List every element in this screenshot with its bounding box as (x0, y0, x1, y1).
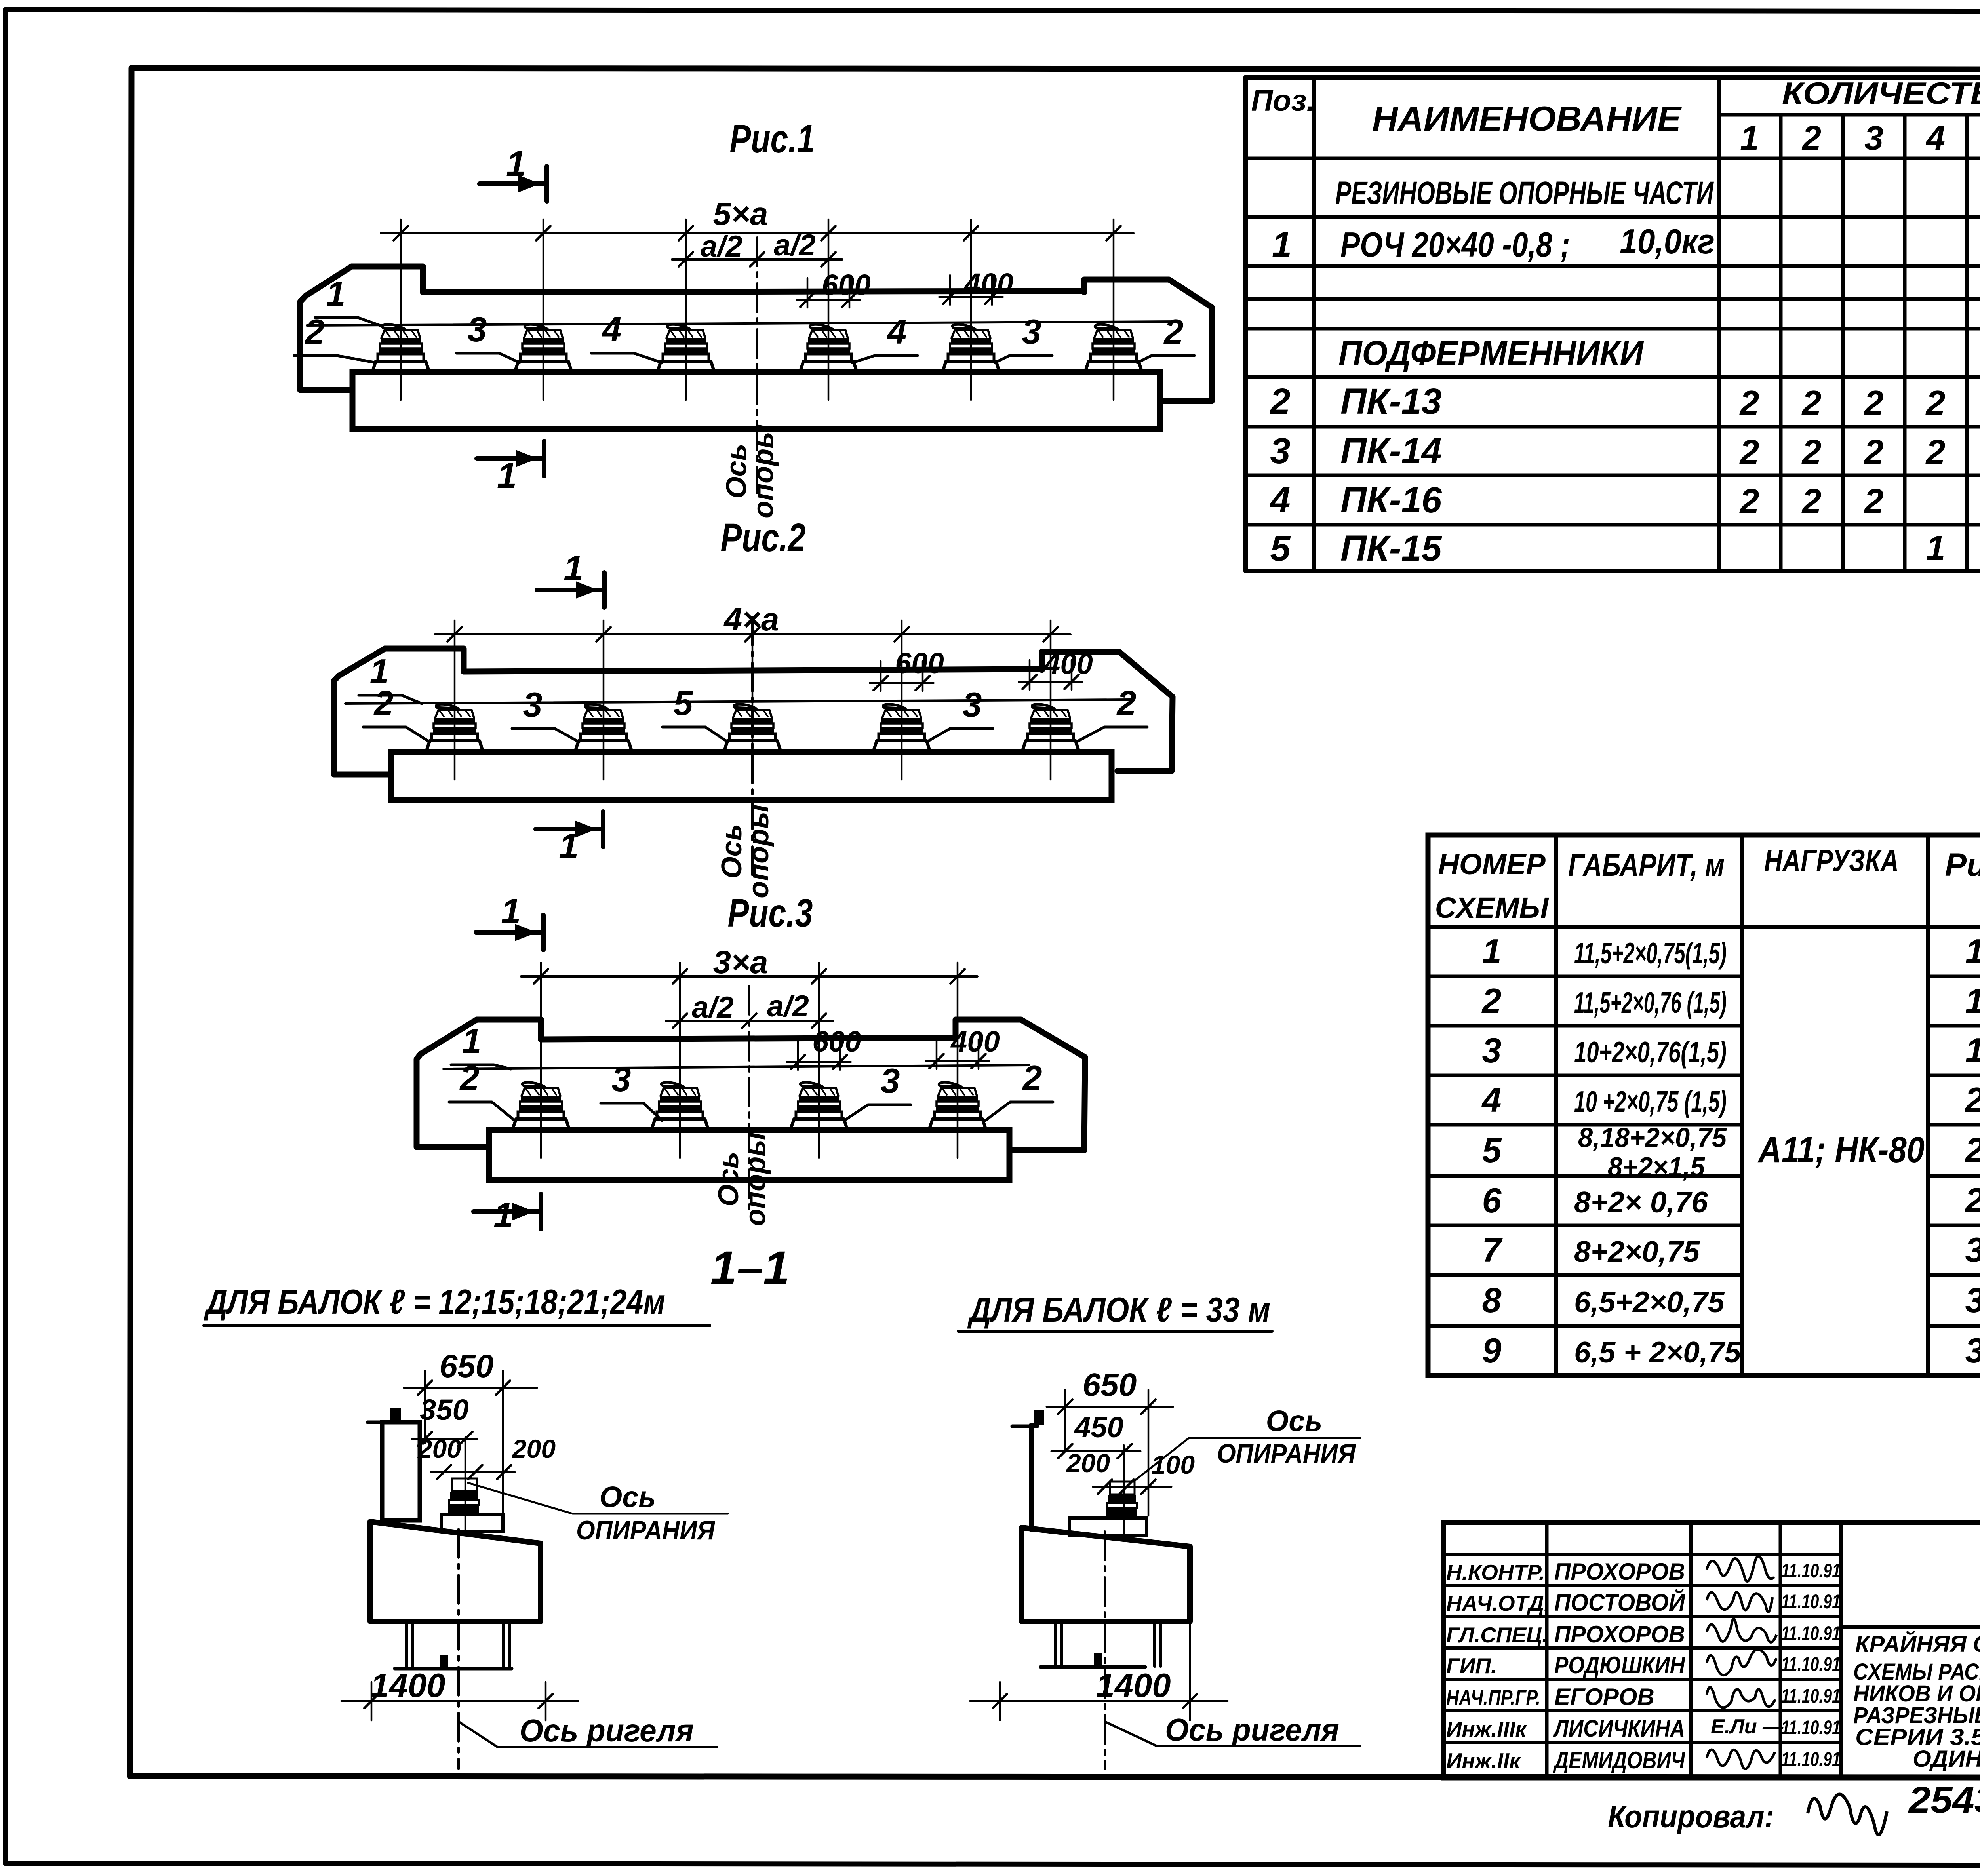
svg-text:ПК-13: ПК-13 (1340, 381, 1442, 422)
svg-text:600: 600 (812, 1025, 861, 1058)
svg-text:РОДЮШКИН: РОДЮШКИН (1554, 1652, 1685, 1678)
svg-text:ДЕМИДОВИЧ: ДЕМИДОВИЧ (1553, 1747, 1685, 1773)
svg-text:Е.Ли —: Е.Ли — (1711, 1715, 1784, 1738)
svg-text:Поз.: Поз. (1251, 84, 1315, 118)
svg-text:2: 2 (459, 1058, 480, 1098)
svg-text:2: 2 (1116, 683, 1137, 723)
svg-text:ПРОХОРОВ: ПРОХОРОВ (1554, 1558, 1685, 1585)
svg-text:6: 6 (1482, 1181, 1502, 1220)
svg-text:Ось: Ось (600, 1480, 656, 1513)
svg-text:ДЛЯ БАЛОК ℓ = 33 м: ДЛЯ БАЛОК ℓ = 33 м (967, 1290, 1270, 1329)
svg-text:Инж.IIк: Инж.IIк (1446, 1749, 1521, 1773)
svg-text:1: 1 (326, 274, 346, 313)
svg-text:Рис.: Рис. (1945, 847, 1980, 883)
svg-text:ДЛЯ БАЛОК ℓ = 12;15;18;21;24м: ДЛЯ БАЛОК ℓ = 12;15;18;21;24м (204, 1282, 665, 1321)
svg-text:10 +2×0,75 (1,5): 10 +2×0,75 (1,5) (1574, 1085, 1727, 1118)
svg-text:3: 3 (1965, 1280, 1980, 1320)
svg-text:Инж.IIIк: Инж.IIIк (1446, 1717, 1527, 1741)
svg-text:опоры: опоры (748, 424, 779, 518)
svg-text:КОЛИЧЕСТВО НА СХЕМУ: КОЛИЧЕСТВО НА СХЕМУ (1782, 76, 1980, 110)
svg-text:2: 2 (1022, 1058, 1042, 1098)
svg-text:2: 2 (1739, 383, 1759, 422)
svg-text:НАИМЕНОВАНИЕ: НАИМЕНОВАНИЕ (1372, 99, 1682, 138)
svg-text:a/2: a/2 (774, 228, 816, 262)
svg-text:600: 600 (822, 268, 870, 301)
svg-text:400: 400 (1043, 647, 1093, 680)
svg-text:ПК-15: ПК-15 (1340, 528, 1443, 569)
svg-text:Рис.3: Рис.3 (728, 891, 813, 935)
svg-text:11.10.91: 11.10.91 (1781, 1622, 1841, 1644)
svg-text:2: 2 (1864, 481, 1884, 521)
svg-text:350: 350 (420, 1393, 468, 1426)
svg-text:10,0кг: 10,0кг (1620, 222, 1715, 261)
svg-text:ГИП.: ГИП. (1446, 1653, 1497, 1678)
svg-text:2: 2 (1163, 312, 1184, 351)
svg-text:2: 2 (1965, 1181, 1980, 1220)
svg-text:2: 2 (1481, 981, 1502, 1020)
svg-text:Ось: Ось (1266, 1404, 1323, 1437)
svg-text:7: 7 (1482, 1230, 1503, 1269)
svg-text:1: 1 (1272, 225, 1292, 264)
svg-text:Копировал:: Копировал: (1608, 1799, 1774, 1834)
svg-text:НАГРУЗКА: НАГРУЗКА (1764, 843, 1899, 878)
svg-text:1: 1 (1482, 932, 1502, 971)
svg-text:ПОДФЕРМЕННИКИ: ПОДФЕРМЕННИКИ (1338, 333, 1644, 373)
svg-text:2: 2 (1801, 383, 1822, 422)
svg-text:3: 3 (1482, 1031, 1502, 1070)
svg-text:ГАБАРИТ, м: ГАБАРИТ, м (1568, 847, 1725, 883)
svg-text:2: 2 (1801, 119, 1821, 157)
svg-text:А11; НК-80: А11; НК-80 (1757, 1130, 1925, 1170)
svg-text:400: 400 (963, 267, 1013, 300)
svg-text:1: 1 (462, 1021, 482, 1060)
svg-text:1: 1 (497, 456, 517, 496)
svg-text:11.10.91: 11.10.91 (1781, 1748, 1841, 1770)
svg-text:НАЧ.ОТД.: НАЧ.ОТД. (1446, 1591, 1550, 1615)
svg-text:1400: 1400 (370, 1667, 445, 1705)
svg-text:1–1: 1–1 (710, 1242, 790, 1294)
svg-text:3: 3 (963, 685, 982, 724)
svg-text:5: 5 (1482, 1130, 1502, 1170)
svg-text:4: 4 (602, 310, 622, 349)
svg-text:1: 1 (564, 549, 583, 588)
svg-text:11.10.91: 11.10.91 (1781, 1716, 1841, 1739)
svg-text:5: 5 (674, 683, 693, 723)
svg-text:a/2: a/2 (692, 991, 734, 1024)
svg-text:ОПИРАНИЯ: ОПИРАНИЯ (1217, 1438, 1356, 1469)
svg-text:КРАЙНЯЯ ОПОРА.: КРАЙНЯЯ ОПОРА. (1855, 1631, 1980, 1657)
svg-text:3: 3 (1965, 1230, 1980, 1269)
svg-text:8+2×1,5: 8+2×1,5 (1608, 1151, 1705, 1182)
svg-text:4: 4 (887, 312, 907, 351)
svg-text:1400: 1400 (1096, 1667, 1171, 1705)
svg-text:3: 3 (523, 685, 543, 724)
svg-text:2: 2 (1965, 1130, 1980, 1170)
svg-text:25430-03: 25430-03 (1908, 1779, 1980, 1821)
svg-text:a/2: a/2 (701, 230, 742, 263)
svg-text:200: 200 (1066, 1448, 1110, 1478)
svg-text:СХЕМЫ: СХЕМЫ (1435, 891, 1550, 924)
svg-text:Рис.2: Рис.2 (721, 516, 806, 560)
svg-text:2: 2 (1739, 432, 1759, 472)
svg-text:11.10.91: 11.10.91 (1781, 1685, 1841, 1707)
svg-text:8: 8 (1482, 1280, 1502, 1320)
svg-text:600: 600 (895, 647, 944, 679)
svg-text:1: 1 (1965, 932, 1980, 971)
svg-text:опоры: опоры (743, 804, 775, 898)
svg-text:2: 2 (1801, 481, 1822, 521)
svg-text:1: 1 (501, 892, 521, 931)
svg-text:2: 2 (1925, 383, 1946, 422)
svg-text:ЕГОРОВ: ЕГОРОВ (1554, 1684, 1654, 1710)
svg-text:1: 1 (559, 827, 579, 866)
svg-text:2: 2 (1269, 381, 1290, 422)
svg-text:650: 650 (440, 1348, 494, 1384)
svg-text:9: 9 (1482, 1331, 1502, 1370)
svg-text:3: 3 (881, 1061, 900, 1100)
svg-text:3: 3 (612, 1060, 631, 1099)
svg-text:РОЧ 20×40 -0,8 ;: РОЧ 20×40 -0,8 ; (1340, 225, 1570, 264)
svg-text:Рис.1: Рис.1 (730, 117, 815, 161)
svg-text:11.10.91: 11.10.91 (1781, 1653, 1841, 1675)
svg-text:ПК-14: ПК-14 (1340, 431, 1442, 471)
svg-text:4: 4 (1925, 119, 1945, 157)
svg-text:ГЛ.СПЕЦ.: ГЛ.СПЕЦ. (1446, 1623, 1548, 1647)
svg-text:3: 3 (1864, 119, 1883, 157)
svg-text:Ось ригеля: Ось ригеля (1165, 1712, 1339, 1747)
svg-text:1: 1 (1965, 981, 1980, 1020)
svg-text:5×a: 5×a (713, 196, 768, 232)
svg-text:2: 2 (1864, 432, 1884, 472)
svg-text:450: 450 (1074, 1411, 1123, 1444)
svg-text:1: 1 (1926, 528, 1946, 567)
svg-text:1: 1 (1740, 119, 1759, 157)
svg-text:2: 2 (373, 683, 394, 723)
svg-text:ОПИРАНИЯ: ОПИРАНИЯ (576, 1515, 715, 1545)
svg-text:6,5 + 2×0,75: 6,5 + 2×0,75 (1574, 1336, 1742, 1369)
svg-text:3: 3 (1022, 312, 1041, 351)
svg-text:опоры: опоры (740, 1132, 771, 1226)
svg-text:Ось ригеля: Ось ригеля (520, 1713, 694, 1748)
svg-text:8,18+2×0,75: 8,18+2×0,75 (1578, 1122, 1727, 1153)
svg-text:650: 650 (1083, 1367, 1137, 1403)
svg-text:400: 400 (950, 1025, 1000, 1058)
svg-text:1: 1 (1965, 1031, 1980, 1070)
svg-text:100: 100 (1151, 1450, 1195, 1479)
svg-text:11,5+2×0,76 (1,5): 11,5+2×0,76 (1,5) (1574, 986, 1727, 1019)
svg-text:3: 3 (1965, 1331, 1980, 1370)
svg-text:11.10.91: 11.10.91 (1781, 1560, 1841, 1582)
svg-text:10+2×0,76(1,5): 10+2×0,76(1,5) (1574, 1035, 1727, 1069)
svg-text:1: 1 (506, 144, 526, 184)
svg-text:11,5+2×0,75(1,5): 11,5+2×0,75(1,5) (1574, 936, 1727, 970)
svg-text:ОДИНАРНЫЕ ГАБАРИТЫ: ОДИНАРНЫЕ ГАБАРИТЫ (1913, 1746, 1980, 1772)
svg-text:200: 200 (511, 1434, 556, 1463)
svg-text:a/2: a/2 (767, 989, 809, 1023)
svg-text:4: 4 (1269, 480, 1290, 520)
svg-text:РЕЗИНОВЫЕ ОПОРНЫЕ ЧАСТИ: РЕЗИНОВЫЕ ОПОРНЫЕ ЧАСТИ (1335, 175, 1714, 211)
svg-text:Н.КОНТР.: Н.КОНТР. (1446, 1560, 1545, 1585)
svg-text:200: 200 (417, 1434, 461, 1463)
svg-text:2: 2 (1739, 481, 1759, 521)
svg-text:5: 5 (1270, 528, 1291, 569)
svg-text:3×a: 3×a (713, 944, 768, 980)
svg-text:2: 2 (1801, 432, 1822, 472)
svg-text:4: 4 (1481, 1080, 1502, 1119)
svg-text:8+2×0,75: 8+2×0,75 (1574, 1235, 1700, 1268)
svg-text:НОМЕР: НОМЕР (1438, 848, 1546, 881)
svg-text:11.10.91: 11.10.91 (1781, 1591, 1841, 1613)
svg-text:2: 2 (305, 312, 325, 351)
svg-text:ПК-16: ПК-16 (1340, 480, 1442, 520)
svg-text:8+2× 0,76: 8+2× 0,76 (1574, 1185, 1708, 1219)
svg-text:ПРОХОРОВ: ПРОХОРОВ (1554, 1621, 1685, 1648)
svg-text:1: 1 (493, 1196, 513, 1235)
svg-text:НАЧ.ПР.ГР.: НАЧ.ПР.ГР. (1446, 1685, 1540, 1710)
svg-text:2: 2 (1864, 383, 1884, 422)
svg-text:ПОСТОВОЙ: ПОСТОВОЙ (1554, 1589, 1686, 1616)
svg-text:2: 2 (1925, 432, 1946, 472)
svg-text:3: 3 (1270, 431, 1290, 471)
svg-text:6,5+2×0,75: 6,5+2×0,75 (1574, 1285, 1725, 1319)
svg-text:3: 3 (468, 310, 487, 349)
svg-text:ЛИСИЧКИНА: ЛИСИЧКИНА (1553, 1715, 1685, 1742)
svg-text:2: 2 (1965, 1080, 1980, 1119)
